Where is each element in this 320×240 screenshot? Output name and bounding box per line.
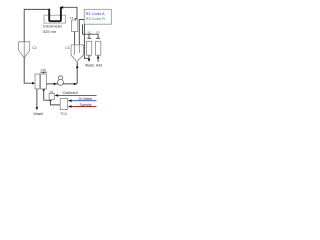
dialyzer right cell bbox=[41, 74, 47, 89]
wire R1 to C1 bbox=[79, 20, 84, 54]
wire C2 to dialyzer bbox=[24, 58, 32, 84]
wire reagent box to waste junction bbox=[84, 24, 89, 58]
dialyzer left cell bbox=[35, 74, 40, 89]
colorimeter housing bbox=[44, 15, 66, 23]
svg-text:TC4: TC4 bbox=[60, 112, 67, 116]
svg-text:Waste: Waste bbox=[85, 63, 94, 67]
svg-text:R2 Color B: R2 Color B bbox=[86, 16, 105, 21]
pump bbox=[58, 76, 62, 80]
svg-text:Calibrant: Calibrant bbox=[63, 91, 79, 95]
wire acid to column2 bbox=[97, 55, 99, 62]
wire debubbler to C1 bbox=[74, 32, 76, 55]
svg-text:525 nm: 525 nm bbox=[43, 29, 56, 34]
vessel C1 bbox=[71, 45, 83, 62]
wire pump up to C1 bbox=[76, 62, 78, 84]
valve Y2 stem bbox=[88, 34, 90, 38]
valve Y10 bbox=[40, 71, 46, 73]
wire column1 to waste bbox=[88, 55, 90, 61]
svg-text:Y2: Y2 bbox=[87, 30, 91, 34]
flow cell U tube bbox=[49, 7, 61, 21]
debubbler bbox=[72, 20, 78, 32]
wire dialyzer right to pump to C1 bbox=[47, 83, 78, 85]
svg-text:C2: C2 bbox=[32, 46, 36, 50]
svg-text:Sample: Sample bbox=[80, 103, 92, 107]
wire dialyzer left to waste bbox=[36, 89, 38, 109]
svg-text:Y2: Y2 bbox=[49, 90, 53, 94]
vessel C2 bbox=[19, 42, 30, 58]
valve Y3 stem bbox=[97, 34, 99, 38]
wire R2 to columns manifold bbox=[83, 24, 99, 34]
svg-text:C1: C1 bbox=[65, 46, 69, 50]
column 2 bbox=[96, 41, 101, 55]
sample arrow bbox=[68, 105, 72, 108]
DI water arrow bbox=[68, 99, 72, 102]
svg-text:Colorimeter: Colorimeter bbox=[43, 24, 63, 28]
valve TC4 bbox=[60, 98, 67, 109]
wire junction down to TC4 bbox=[49, 100, 51, 102]
sample line bbox=[71, 106, 96, 108]
valve Y2 (calibrant) bbox=[49, 93, 54, 99]
column 1 bbox=[86, 41, 91, 55]
wire dialyzer right down to junction bbox=[42, 89, 45, 92]
svg-text:Waste: Waste bbox=[33, 112, 43, 116]
arrow into flow cell bbox=[60, 6, 64, 9]
wire colorimeter to debubbler Y1 bbox=[63, 7, 77, 20]
calibrant line bbox=[58, 94, 97, 96]
reagent legend box bbox=[84, 9, 111, 24]
svg-text:Y10: Y10 bbox=[40, 68, 46, 72]
svg-text:Y3: Y3 bbox=[96, 30, 100, 34]
DI water line bbox=[71, 100, 96, 102]
calibrant arrow bbox=[55, 94, 59, 97]
wire C2 to colorimeter bbox=[24, 9, 49, 57]
svg-text:DI Water: DI Water bbox=[79, 97, 94, 101]
svg-text:Acid: Acid bbox=[96, 63, 103, 67]
